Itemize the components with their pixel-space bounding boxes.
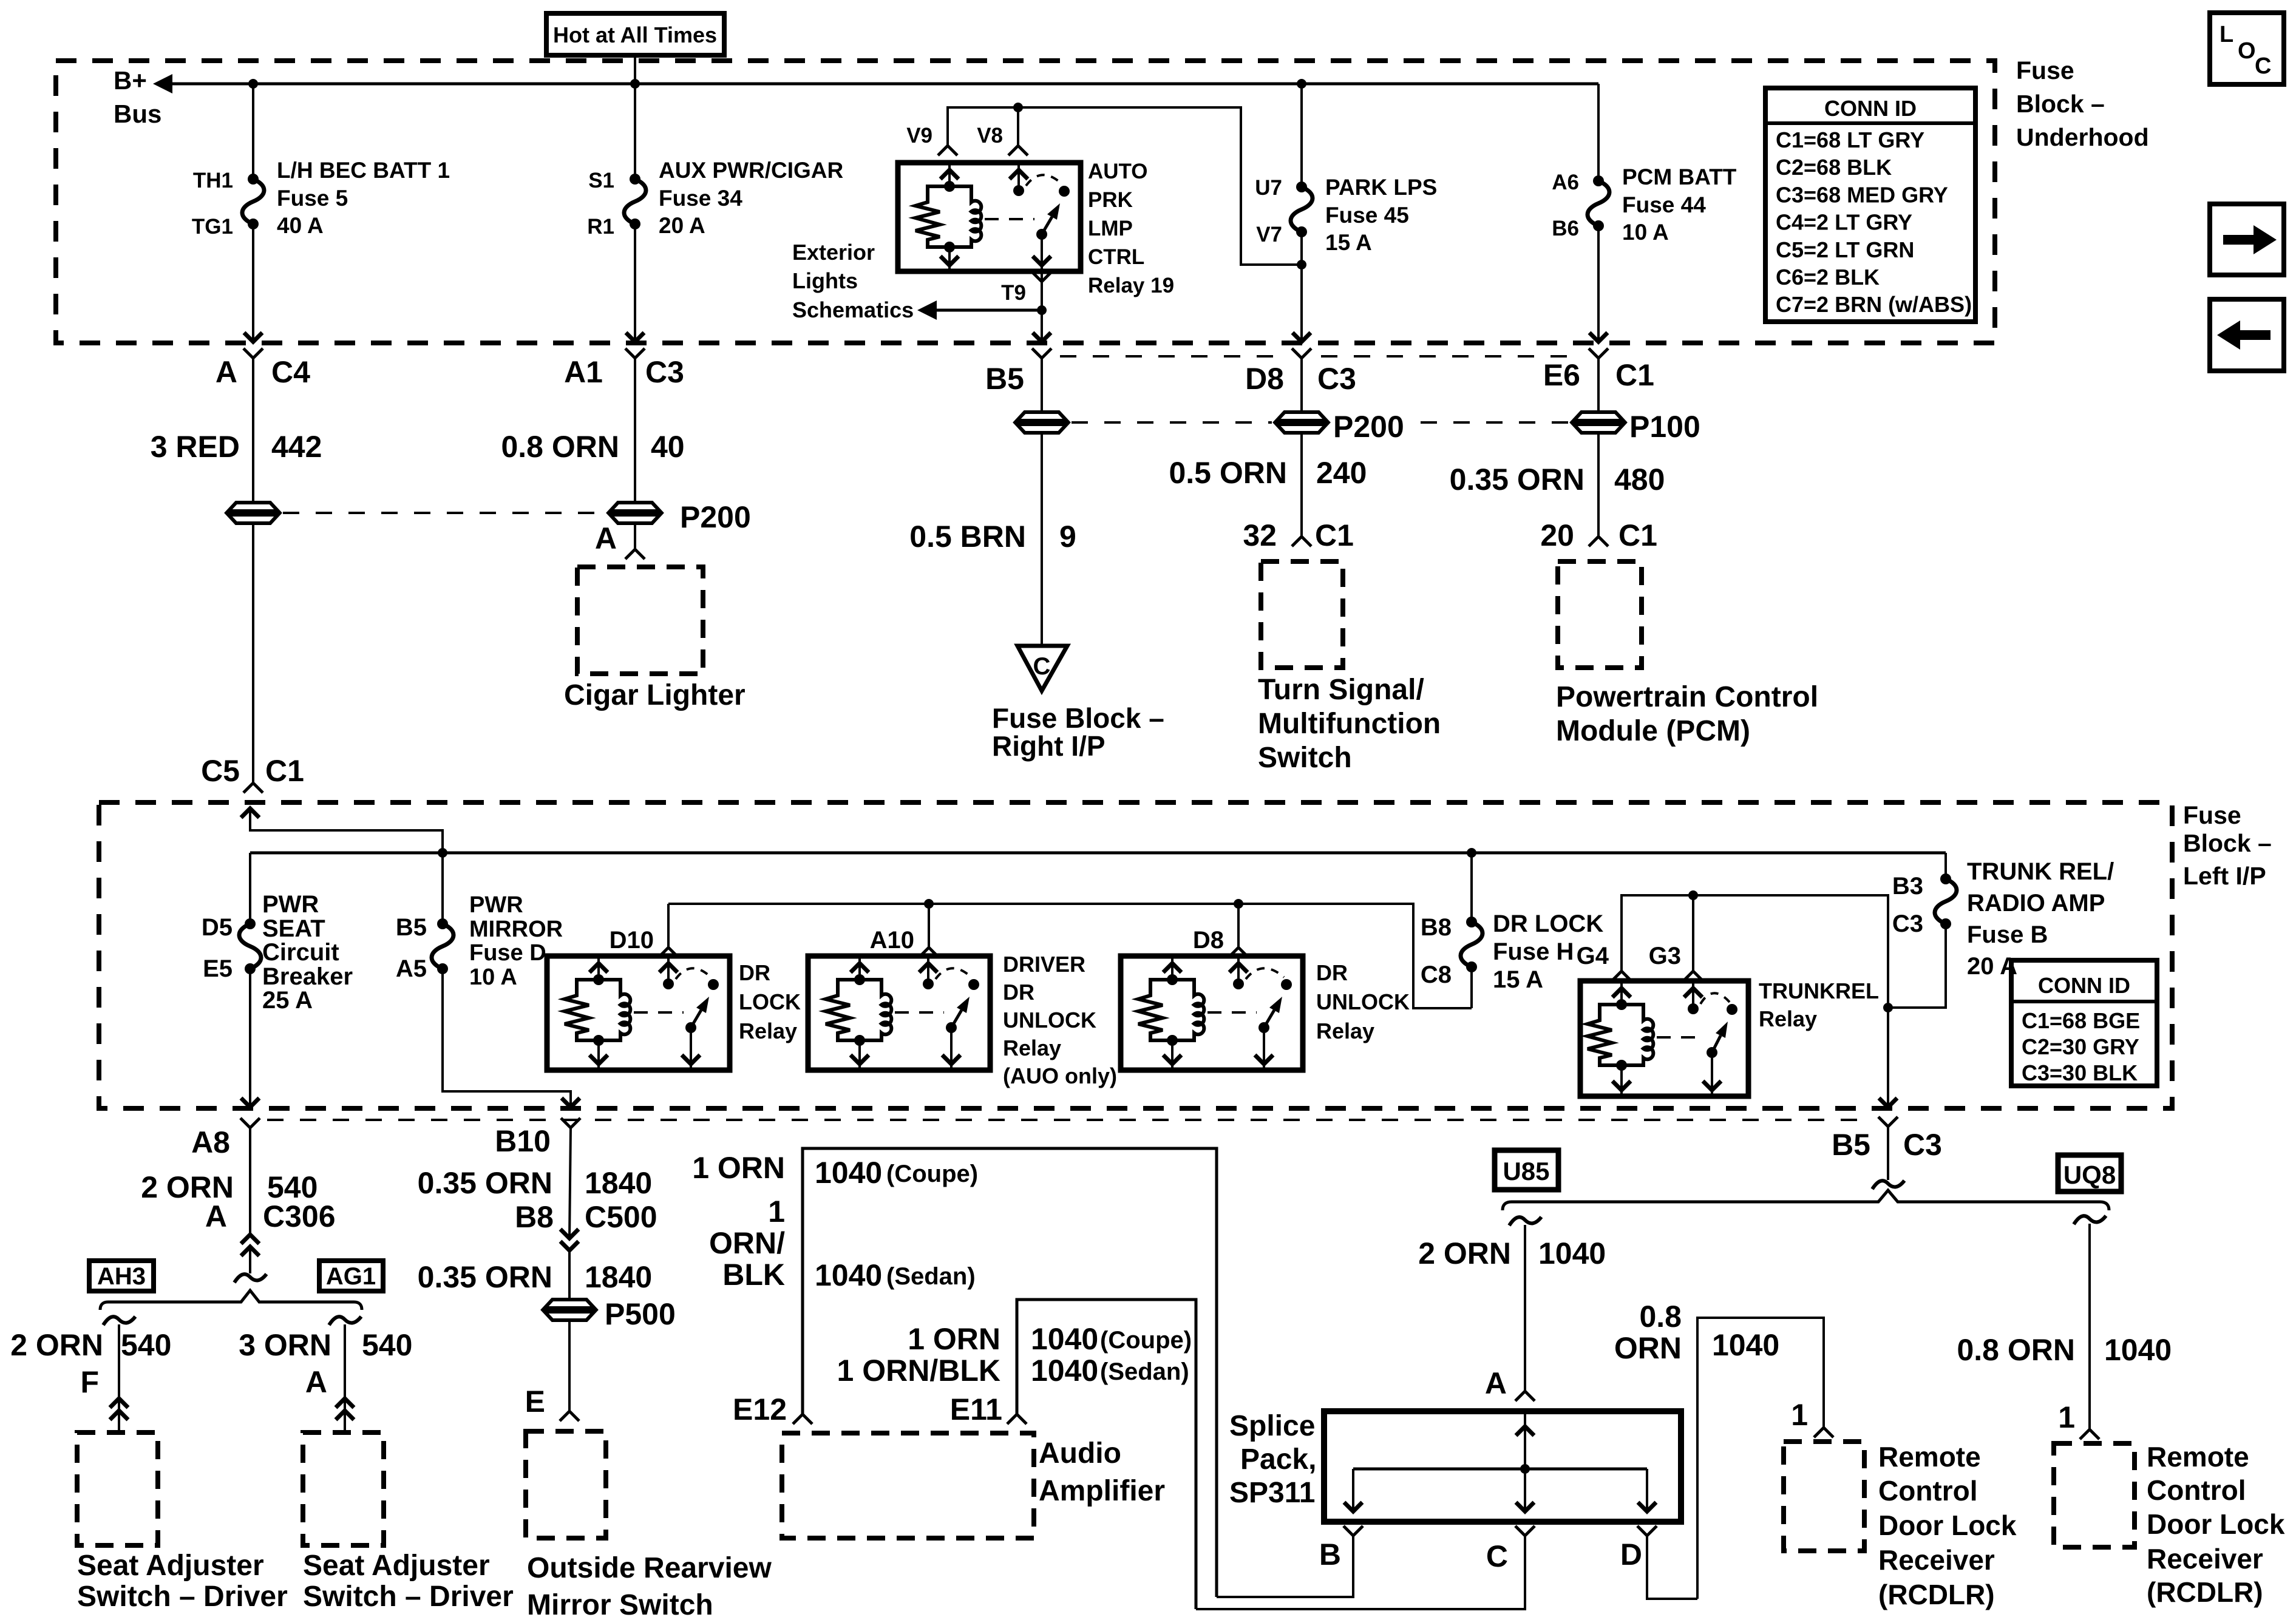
relay DR LOCK [547, 956, 730, 1070]
wire trunk relay feed [1622, 895, 1888, 1008]
label dr lock relay [739, 960, 801, 1043]
label 1040 coupe E11 [1031, 1322, 1192, 1356]
svg-text:C1: C1 [1618, 518, 1657, 552]
inline connector lens (col 1) [228, 503, 278, 523]
wire A branch [344, 1324, 346, 1432]
svg-text:Hot at All Times: Hot at All Times [553, 22, 717, 47]
svg-text:C8: C8 [1421, 961, 1452, 988]
fuse H dr lock 15A [1461, 917, 1483, 972]
label fuse 34 desc [659, 158, 843, 238]
label seat adjuster switch driver 2 [303, 1550, 514, 1613]
svg-text:(Coupe): (Coupe) [1100, 1327, 1192, 1354]
svg-text:DR: DR [1003, 980, 1034, 1005]
connector B5 [985, 348, 1051, 396]
svg-text:Underhood: Underhood [2016, 123, 2149, 151]
svg-text:32: 32 [1243, 518, 1277, 552]
option break tilde B5C3 [1872, 1181, 1904, 1189]
label splice pack SP311 [1229, 1410, 1316, 1509]
connector E6 C1 [1543, 348, 1654, 392]
junction S1 tap [630, 79, 640, 89]
option break tilde C306 [234, 1274, 267, 1283]
inline connector lens (B5) [1017, 412, 1067, 433]
svg-text:1040: 1040 [815, 1258, 882, 1292]
connector E11 [950, 1392, 1027, 1426]
wire F branch [118, 1324, 120, 1432]
label breaker desc [262, 891, 353, 1014]
svg-text:ORN/: ORN/ [709, 1226, 785, 1260]
junction trunk output [1883, 1003, 1893, 1012]
component outside rearview mirror switch box [526, 1431, 606, 1538]
svg-text:Remote: Remote [2147, 1441, 2249, 1473]
svg-text:E12: E12 [733, 1392, 787, 1426]
connector G3 [1649, 943, 1703, 981]
svg-text:Relay: Relay [1003, 1036, 1061, 1060]
wire E11 option loop [1017, 1300, 1196, 1609]
pin 20 C1 pcm [1540, 518, 1657, 552]
connector A C306 [205, 1199, 336, 1256]
conn id table underhood [1765, 88, 1975, 322]
wire fuse 45 output [1300, 232, 1303, 343]
svg-text:G4: G4 [1577, 943, 1609, 969]
label trunkrel relay [1759, 978, 1879, 1031]
svg-text:Multifunction: Multifunction [1258, 708, 1441, 740]
svg-text:G3: G3 [1649, 943, 1681, 969]
svg-text:CONN ID: CONN ID [1824, 96, 1917, 121]
wire rcdlr1 riser [1697, 1318, 1824, 1599]
box U85 [1495, 1150, 1558, 1190]
splice internal leg B [1344, 1469, 1362, 1511]
wire circuit 540 [249, 1128, 251, 1233]
svg-text:1: 1 [2058, 1400, 2075, 1434]
forward arrow box [2210, 204, 2284, 275]
svg-text:1040: 1040 [1538, 1236, 1606, 1270]
wire A10 lead [928, 904, 930, 947]
svg-text:20: 20 [1540, 518, 1574, 552]
label relay 19 [1088, 160, 1174, 297]
splice pack SP311 box [1324, 1411, 1681, 1522]
wire fuse 5 output [252, 224, 254, 343]
svg-text:Outside Rearview: Outside Rearview [527, 1552, 772, 1584]
dashed link lens row 1 [283, 512, 606, 514]
splice internal leg D [1638, 1469, 1656, 1511]
svg-text:(AUO only): (AUO only) [1003, 1063, 1117, 1088]
svg-text:Block –: Block – [2183, 829, 2272, 857]
wire fuse 44 output [1597, 226, 1600, 343]
label fuse block left IP [2183, 801, 2272, 890]
svg-text:RADIO AMP: RADIO AMP [1967, 890, 2105, 917]
svg-text:E6: E6 [1543, 358, 1580, 392]
svg-text:1: 1 [1791, 1398, 1808, 1432]
option break tilde U85 [1509, 1217, 1541, 1225]
svg-text:1840: 1840 [585, 1166, 652, 1200]
pin 1 rcdlr2 [2058, 1400, 2099, 1439]
svg-text:TH1: TH1 [193, 169, 233, 192]
connector C5 C1 [201, 754, 304, 793]
svg-text:A: A [595, 521, 617, 555]
svg-text:40: 40 [651, 430, 685, 464]
svg-text:C7=2 BRN (w/ABS): C7=2 BRN (w/ABS) [1776, 292, 1972, 317]
wire D8 to lens [1300, 358, 1303, 412]
connector V9 [906, 124, 957, 155]
connector G4 [1577, 943, 1631, 981]
label fuse B desc [1967, 858, 2114, 980]
svg-text:A: A [305, 1365, 327, 1399]
svg-text:C5=2 LT GRN: C5=2 LT GRN [1776, 237, 1914, 262]
wire relay19 feed [948, 107, 1302, 265]
svg-text:A1: A1 [564, 355, 603, 389]
svg-text:B+: B+ [114, 66, 147, 95]
pin 32 C1 turn signal [1243, 518, 1354, 552]
wire fuse D output jog [443, 969, 571, 1108]
svg-text:DR LOCK: DR LOCK [1493, 910, 1603, 937]
relay TRUNKREL [1580, 981, 1748, 1096]
svg-text:BLK: BLK [722, 1258, 785, 1292]
svg-text:C1: C1 [1315, 518, 1354, 552]
svg-text:PWR: PWR [262, 891, 319, 918]
junction exterior lights tap [1037, 305, 1047, 315]
svg-text:C500: C500 [585, 1200, 657, 1234]
svg-text:SP311: SP311 [1229, 1477, 1315, 1509]
svg-text:TG1: TG1 [192, 215, 233, 239]
svg-text:(Coupe): (Coupe) [886, 1161, 978, 1187]
connector D8 C3 [1245, 348, 1356, 396]
svg-text:C2=68 BLK: C2=68 BLK [1776, 155, 1892, 180]
wire trunk output down [1887, 1008, 1889, 1108]
svg-text:C2=30 GRY: C2=30 GRY [2022, 1034, 2139, 1059]
svg-text:Remote: Remote [1878, 1441, 1981, 1473]
component seat adjuster switch 2 box [303, 1432, 384, 1545]
option break tilde F branch [103, 1317, 135, 1325]
svg-text:F: F [80, 1365, 99, 1399]
svg-text:E: E [525, 1385, 545, 1419]
svg-text:3 ORN: 3 ORN [239, 1328, 331, 1362]
svg-text:Audio: Audio [1039, 1437, 1121, 1470]
svg-text:CTRL: CTRL [1088, 245, 1144, 269]
svg-text:MIRROR: MIRROR [469, 917, 563, 942]
svg-text:UQ8: UQ8 [2063, 1161, 2116, 1189]
svg-text:C3: C3 [645, 355, 684, 389]
wire circuit 9 [1041, 433, 1043, 646]
svg-text:A5: A5 [396, 955, 427, 982]
wire E6 to lens [1597, 358, 1600, 412]
connector B10 [495, 1118, 580, 1158]
wire fuse H output [1470, 967, 1473, 1008]
svg-text:DR: DR [1316, 960, 1348, 985]
svg-text:Fuse Block –: Fuse Block – [992, 702, 1164, 734]
fuse B trunk rel radio amp 20A [1935, 873, 1957, 929]
wire exterior lights arrow [917, 300, 1042, 320]
label 3 ORN 540 A [239, 1328, 412, 1362]
svg-text:540: 540 [121, 1328, 171, 1362]
fuse D pwr mirror 10A [432, 918, 453, 974]
wire circuit 1040 U85 [1524, 1225, 1526, 1391]
label 0.5 ORN 240 [1169, 456, 1367, 490]
svg-text:0.35 ORN: 0.35 ORN [418, 1260, 552, 1294]
svg-text:TRUNK REL/: TRUNK REL/ [1967, 858, 2114, 885]
fuse F5 L/H BEC BATT 1 40A [242, 174, 264, 229]
svg-text:C3: C3 [1317, 362, 1356, 396]
junction V8 tap [1013, 103, 1023, 112]
fuse block left IP dashed box [99, 802, 2172, 1108]
svg-text:Fuse D: Fuse D [469, 940, 546, 966]
svg-text:LMP: LMP [1088, 217, 1133, 240]
wire bus to breaker [249, 853, 251, 924]
svg-text:1: 1 [768, 1195, 785, 1229]
svg-text:(RCDLR): (RCDLR) [2147, 1576, 2263, 1608]
arrow into connector C3 [626, 333, 644, 342]
svg-text:Relay: Relay [739, 1019, 797, 1043]
svg-text:AH3: AH3 [97, 1263, 146, 1290]
wire B+ to fuse 44 [1597, 84, 1600, 181]
junction TH1 tap [248, 79, 258, 89]
svg-text:1040: 1040 [1031, 1322, 1098, 1356]
label 2 ORN 540 [141, 1170, 318, 1204]
svg-text:C: C [1033, 653, 1051, 680]
svg-text:1040: 1040 [1712, 1328, 1779, 1362]
svg-text:Switch – Driver: Switch – Driver [77, 1581, 288, 1613]
svg-text:2 ORN: 2 ORN [10, 1328, 103, 1362]
wire to cigar lighter [634, 523, 636, 549]
relay U19 auto park lamp control [898, 163, 1081, 271]
wire D8 lead [1237, 904, 1240, 947]
svg-text:0.5 ORN: 0.5 ORN [1169, 456, 1287, 490]
svg-text:UNLOCK: UNLOCK [1316, 989, 1410, 1014]
svg-text:SEAT: SEAT [262, 915, 325, 942]
svg-text:C: C [2255, 53, 2271, 79]
pin E mirror [525, 1385, 579, 1421]
svg-text:TRUNKREL: TRUNKREL [1759, 978, 1879, 1003]
connector B5 C3 left IP [1832, 1117, 1942, 1162]
svg-text:(Sedan): (Sedan) [1100, 1358, 1189, 1385]
label exterior lights schematics [792, 240, 914, 322]
inline connector P100 [1574, 410, 1700, 444]
svg-text:Relay 19: Relay 19 [1088, 274, 1174, 297]
inline connector P200 (col 2) [610, 500, 751, 534]
wire T9 down [1041, 271, 1043, 343]
junction mirror fuse tap [438, 848, 447, 858]
connector A C4 [216, 348, 310, 389]
label 2 ORN 1040 [1418, 1236, 1606, 1270]
svg-text:B10: B10 [495, 1124, 551, 1158]
svg-text:Block –: Block – [2016, 90, 2105, 118]
svg-text:C5: C5 [201, 754, 240, 788]
svg-text:A10: A10 [870, 927, 914, 954]
connector splice D [1620, 1526, 1657, 1571]
label rcdlr1 [1878, 1441, 2017, 1610]
svg-text:A: A [1485, 1366, 1507, 1400]
component audio amplifier box [782, 1433, 1034, 1538]
svg-text:B5: B5 [1832, 1128, 1870, 1162]
svg-text:A8: A8 [191, 1125, 230, 1159]
svg-text:Right I/P: Right I/P [992, 730, 1106, 762]
connector D8 relay [1193, 927, 1248, 957]
svg-text:Bus: Bus [114, 100, 161, 128]
wire splice C to E11 loop [1196, 1536, 1525, 1609]
arrow B5 C3 exit [1879, 1098, 1897, 1107]
component cigar lighter box [577, 567, 703, 674]
junction D8 tap [1234, 899, 1243, 909]
option break tilde UQ8 [2074, 1216, 2106, 1224]
svg-text:Switch: Switch [1258, 742, 1352, 774]
wire B+ to fuse 34 [634, 84, 636, 179]
wire circuit 40 [634, 358, 636, 503]
label 0.35 ORN 1840 upper [418, 1166, 653, 1200]
svg-text:U7: U7 [1255, 176, 1282, 200]
svg-text:0.35 ORN: 0.35 ORN [418, 1166, 552, 1200]
svg-text:V8: V8 [977, 124, 1003, 147]
connector A arrows [336, 1398, 354, 1408]
arrow into connector D8 [1292, 333, 1311, 342]
svg-text:D8: D8 [1245, 362, 1284, 396]
svg-text:C3=68 MED GRY: C3=68 MED GRY [1776, 182, 1948, 207]
svg-text:Fuse 5: Fuse 5 [277, 186, 348, 211]
svg-text:DR: DR [739, 960, 770, 985]
svg-text:B3: B3 [1892, 873, 1923, 900]
wire rcdlr2 [2088, 1224, 2091, 1429]
svg-text:0.8 ORN: 0.8 ORN [501, 430, 619, 464]
svg-text:(RCDLR): (RCDLR) [1878, 1579, 1995, 1610]
svg-text:1040: 1040 [2104, 1333, 2172, 1367]
label 1040 coupe E12 [815, 1156, 978, 1190]
junction dr lock fuse tap [1467, 848, 1476, 858]
node B+ bus label [114, 66, 161, 128]
svg-text:Cigar Lighter: Cigar Lighter [564, 679, 746, 711]
hot at all times label box [546, 13, 724, 55]
svg-text:B5: B5 [985, 362, 1024, 396]
svg-text:Fuse: Fuse [2183, 801, 2241, 829]
box AH3 [89, 1261, 154, 1291]
svg-text:A: A [216, 355, 237, 389]
svg-text:C6=2 BLK: C6=2 BLK [1776, 265, 1880, 290]
svg-text:P100: P100 [1629, 410, 1700, 444]
connector A8 [191, 1118, 260, 1159]
svg-text:Fuse 34: Fuse 34 [659, 186, 742, 211]
svg-text:PRK: PRK [1088, 188, 1133, 212]
dashed connector row line [1060, 355, 1282, 358]
label fuse D desc [469, 892, 563, 990]
svg-text:C: C [1486, 1539, 1508, 1573]
svg-text:1 ORN: 1 ORN [908, 1322, 1000, 1356]
svg-text:0.35 ORN: 0.35 ORN [1450, 463, 1584, 497]
svg-text:ORN: ORN [1614, 1331, 1682, 1365]
wire circuit 240 [1300, 433, 1303, 537]
svg-text:442: 442 [271, 430, 322, 464]
junction G3 tap [1688, 890, 1698, 900]
component seat adjuster switch 1 box [77, 1432, 158, 1545]
svg-text:Fuse H: Fuse H [1493, 938, 1574, 965]
svg-text:Control: Control [2147, 1474, 2246, 1506]
svg-text:540: 540 [362, 1328, 412, 1362]
label 0.35 ORN 480 [1450, 463, 1665, 497]
wire splice D to rcdlr1 [1647, 1536, 1697, 1599]
label powertrain control module [1556, 681, 1818, 747]
svg-text:Control: Control [1878, 1475, 1978, 1507]
svg-text:480: 480 [1614, 463, 1665, 497]
label dr unlock relay [1316, 960, 1410, 1043]
svg-text:Exterior: Exterior [792, 240, 875, 265]
junction PARK LPS tap [1297, 79, 1306, 89]
svg-text:B: B [1319, 1537, 1341, 1571]
svg-text:Door Lock: Door Lock [2147, 1508, 2285, 1540]
label 1040 sedan E11 [1031, 1354, 1189, 1388]
svg-text:Left I/P: Left I/P [2183, 862, 2266, 890]
svg-text:Circuit: Circuit [262, 939, 339, 966]
svg-text:V7: V7 [1256, 223, 1282, 246]
relay DRIVER DR UNLOCK [808, 956, 990, 1070]
svg-text:D5: D5 [202, 914, 233, 941]
fuse F45 PARK LPS 15A [1291, 181, 1313, 237]
option tent U85 UQ8 [1503, 1190, 2109, 1210]
wire C1 feed jog [250, 808, 443, 853]
label driver dr unlock relay [1003, 952, 1117, 1088]
svg-text:Pack,: Pack, [1240, 1443, 1316, 1476]
connector A10 [870, 927, 939, 957]
off-page symbol C fuse block right IP [1017, 646, 1067, 691]
svg-text:C306: C306 [263, 1199, 336, 1233]
pin A cigar lighter [595, 521, 645, 559]
svg-text:1040: 1040 [1031, 1354, 1098, 1388]
svg-text:L: L [2220, 22, 2233, 47]
connector splice B [1319, 1526, 1363, 1571]
component powertrain control module box [1558, 561, 1642, 668]
arrow entering left IP [241, 808, 259, 818]
option bracket seat [100, 1290, 362, 1310]
label turn signal multifunction switch [1258, 674, 1441, 774]
svg-text:U85: U85 [1503, 1157, 1549, 1185]
svg-text:Lights: Lights [792, 268, 858, 293]
svg-text:40 A: 40 A [277, 213, 324, 238]
svg-text:240: 240 [1316, 456, 1367, 490]
arrow into connector C4 [244, 333, 262, 342]
svg-text:B5: B5 [396, 914, 427, 941]
wire bus to fuse B [1944, 853, 1947, 879]
svg-text:15 A: 15 A [1493, 966, 1543, 993]
label 3 RED 442 [151, 430, 322, 464]
label Fuse Block Underhood [2016, 56, 2149, 151]
svg-text:P500: P500 [605, 1297, 676, 1331]
splice internal bus [1353, 1468, 1647, 1471]
svg-text:D10: D10 [610, 927, 654, 954]
wire B+ to fuse 45 [1300, 84, 1303, 187]
wire circuit 480 [1597, 433, 1600, 537]
component rcdlr1 box [1784, 1442, 1864, 1551]
svg-text:1 ORN: 1 ORN [692, 1151, 785, 1185]
wire fuse B output [1888, 924, 1946, 1008]
svg-text:Module (PCM): Module (PCM) [1556, 715, 1750, 747]
svg-text:AUTO: AUTO [1088, 160, 1148, 183]
label 0.8 ORN 40 [501, 430, 684, 464]
svg-text:10 A: 10 A [1622, 220, 1669, 245]
svg-text:P200: P200 [1333, 410, 1404, 444]
svg-text:AG1: AG1 [326, 1263, 376, 1290]
wire 442 upper [252, 358, 254, 503]
svg-text:P200: P200 [680, 500, 751, 534]
connector T9 [1001, 272, 1051, 305]
svg-text:25 A: 25 A [262, 987, 313, 1014]
label fuse 45 desc [1325, 175, 1437, 255]
label audio amplifier [1039, 1437, 1165, 1507]
svg-text:B8: B8 [1421, 914, 1452, 941]
svg-text:PWR: PWR [469, 892, 523, 918]
label 1040 sedan E12 [815, 1258, 976, 1292]
svg-text:Receiver: Receiver [2147, 1543, 2263, 1575]
svg-text:C1=68 LT GRY: C1=68 LT GRY [1776, 127, 1924, 152]
svg-text:E5: E5 [203, 955, 233, 982]
svg-text:PCM BATT: PCM BATT [1622, 164, 1737, 189]
arrow into connector E6 [1589, 333, 1608, 342]
svg-text:Amplifier: Amplifier [1039, 1475, 1165, 1507]
label rcdlr2 [2147, 1441, 2285, 1608]
